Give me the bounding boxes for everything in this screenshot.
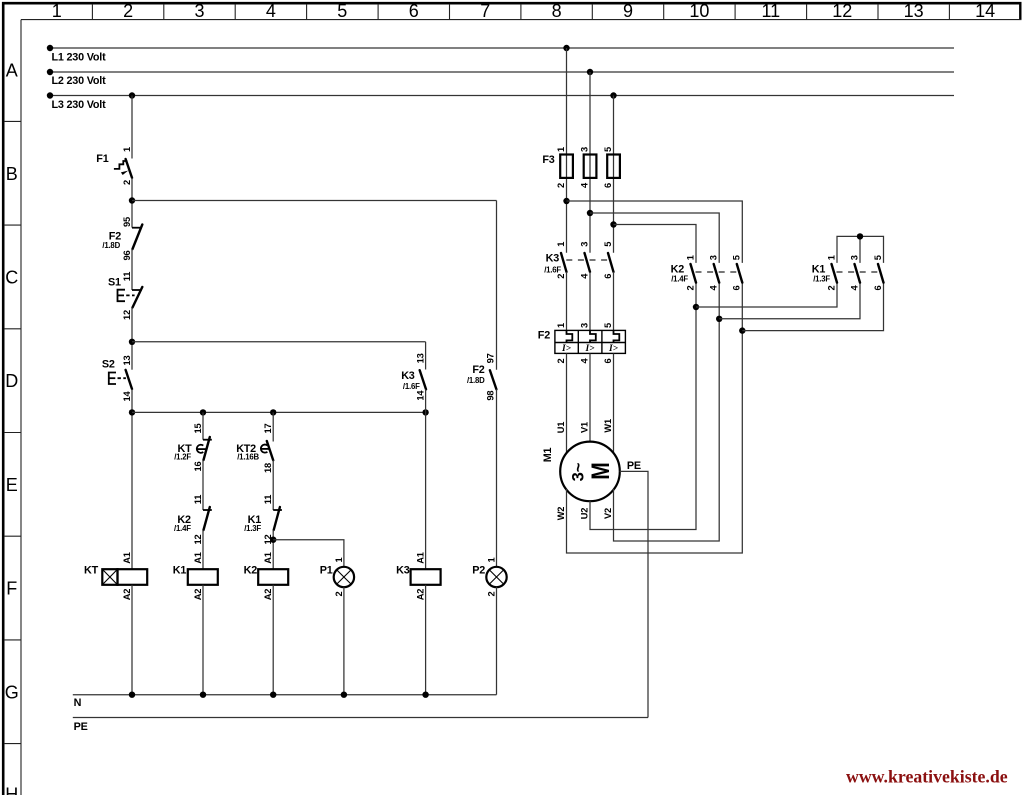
wire node to F2 lamp branch [132, 200, 497, 202]
letter row labels [5, 61, 19, 795]
svg-text:A2: A2 [122, 589, 132, 601]
svg-text:K2: K2 [244, 565, 258, 577]
svg-text:C: C [5, 268, 18, 288]
wire N bus [73, 694, 497, 696]
wire L1 bus [50, 47, 954, 49]
svg-text:97: 97 [486, 353, 496, 363]
svg-text:5: 5 [337, 1, 347, 21]
wire KT2 contact to K1 contact [272, 460, 274, 510]
svg-text:3: 3 [709, 255, 719, 260]
svg-text:P2: P2 [472, 565, 485, 577]
wire L2 bus [50, 71, 954, 73]
svg-text:1: 1 [334, 557, 344, 562]
svg-text:I>: I> [584, 344, 595, 354]
svg-text:I>: I> [608, 344, 619, 354]
svg-text:P1: P1 [320, 565, 333, 577]
svg-text:6: 6 [873, 285, 883, 290]
svg-text:1: 1 [556, 147, 566, 152]
contact F2 95-96 NC [102, 217, 142, 260]
svg-text:5: 5 [873, 255, 883, 260]
svg-text:E: E [6, 475, 18, 495]
svg-text:/1.3F: /1.3F [244, 524, 261, 533]
node K2 pin4 to K1 link [716, 316, 722, 322]
svg-text:D: D [5, 371, 18, 391]
svg-text:5: 5 [603, 147, 613, 152]
switch S2 NO pushbutton [102, 356, 132, 402]
wire branch to lamp P1 [273, 540, 344, 567]
node rung bus left [129, 409, 135, 415]
svg-text:S1: S1 [108, 277, 121, 289]
svg-text:11: 11 [761, 1, 780, 21]
wire F2b branch down [496, 201, 498, 370]
wire K1 star bridge center stub [859, 236, 861, 263]
node K1 star bridge [857, 233, 863, 239]
wire rung bus [132, 411, 426, 413]
svg-text:F2: F2 [472, 364, 484, 376]
svg-text:1: 1 [122, 147, 132, 152]
node KT at N [129, 692, 135, 698]
svg-text:2: 2 [556, 358, 566, 363]
contactor K2 main contacts [671, 255, 743, 290]
svg-text:PE: PE [74, 721, 88, 733]
svg-text:F2: F2 [538, 330, 550, 342]
node L1 start [47, 45, 53, 51]
svg-text:H: H [5, 785, 18, 795]
wire K3 branch down [425, 342, 427, 370]
contact K3 13-14 NO [401, 353, 426, 400]
wire phase1 L1 to K3 [566, 48, 568, 253]
wire motor PE to PE bus [620, 471, 648, 717]
svg-text:9: 9 [623, 1, 633, 21]
svg-text:N: N [74, 697, 82, 709]
wire coil K2 to N [272, 585, 274, 695]
svg-text:11: 11 [263, 495, 273, 504]
wire KT contact to K2 contact [202, 460, 204, 510]
svg-text:L2 230 Volt: L2 230 Volt [52, 75, 107, 87]
svg-text:A2: A2 [263, 589, 273, 601]
wire coil K3 to N [425, 585, 427, 695]
node L2 to F3 tap [587, 69, 593, 75]
svg-text:KT: KT [84, 565, 99, 577]
svg-text:G: G [5, 682, 19, 702]
svg-text:/1.3F: /1.3F [813, 275, 830, 284]
header column numbers [52, 1, 995, 21]
svg-text:/1.16B: /1.16B [237, 453, 259, 462]
border frame outer top line [2, 2, 1022, 5]
CONTROL CIRCUIT [84, 96, 507, 698]
svg-text:/1.6F: /1.6F [544, 266, 561, 275]
svg-text:12: 12 [193, 535, 203, 545]
svg-text:8: 8 [552, 1, 562, 21]
wire L3 down to F1 [131, 96, 133, 159]
wire K2 pin4 to K1 pin4 [719, 283, 860, 319]
svg-text:6: 6 [603, 183, 613, 188]
contactor K1 main contacts [812, 255, 884, 290]
wire F2b to lamp P2 [496, 389, 498, 567]
svg-text:2: 2 [556, 274, 566, 279]
wire bus down to KT contact [202, 412, 204, 439]
wire K1 star bridge [837, 236, 884, 263]
svg-text:2: 2 [826, 285, 836, 290]
svg-text:V2: V2 [603, 508, 613, 519]
wire feed phase3 to K2 pin1 [614, 225, 697, 263]
node bus to KT2 contact [270, 409, 276, 415]
switch S1 NC pushbutton [108, 272, 142, 320]
svg-text:A2: A2 [416, 589, 426, 601]
svg-text:W2: W2 [556, 507, 566, 521]
node L1 to F3 tap [563, 45, 569, 51]
node L3 to F1 tap [129, 92, 135, 98]
svg-text:/1.6F: /1.6F [403, 382, 420, 391]
node L2 start [47, 69, 53, 75]
svg-text:M1: M1 [542, 448, 554, 463]
lamp P1 [320, 557, 354, 596]
svg-text:2: 2 [123, 1, 133, 21]
svg-text:10: 10 [689, 1, 709, 21]
FOOTER [846, 767, 1008, 787]
node bus to KT contact [200, 409, 206, 415]
svg-text:U2: U2 [580, 508, 590, 520]
svg-text:6: 6 [603, 274, 613, 279]
node K2 pin2 to K1 link [693, 304, 699, 310]
svg-text:K3: K3 [401, 370, 415, 382]
svg-text:3: 3 [580, 323, 590, 328]
coil KT [84, 552, 147, 600]
node K3 at N [422, 692, 428, 698]
svg-text:F: F [6, 579, 17, 599]
wire K3 contact to bus [425, 389, 427, 569]
node phase1 feed tap [563, 198, 569, 204]
wire S2 to coil KT [131, 389, 133, 569]
svg-text:/1.2F: /1.2F [174, 453, 191, 462]
svg-text:B: B [6, 164, 18, 184]
svg-text:/1.8D: /1.8D [102, 241, 120, 250]
svg-text:I>: I> [561, 344, 572, 354]
svg-text:PE: PE [627, 460, 641, 472]
svg-text:S2: S2 [102, 359, 115, 371]
wire F1 to node [131, 178, 133, 228]
node P1 at N [341, 692, 347, 698]
svg-text:13: 13 [904, 1, 924, 21]
svg-text:A2: A2 [193, 589, 203, 601]
svg-text:95: 95 [122, 217, 132, 227]
svg-text:15: 15 [193, 424, 203, 434]
node L3 start [47, 92, 53, 98]
wire phase2 L2 to K3 [589, 72, 591, 253]
node S1 out [129, 339, 135, 345]
svg-text:2: 2 [487, 591, 497, 596]
svg-text:W1: W1 [603, 419, 613, 433]
svg-text:16: 16 [193, 462, 203, 472]
svg-text:12: 12 [832, 1, 852, 21]
svg-text:14: 14 [415, 390, 425, 401]
svg-text:2: 2 [685, 285, 695, 290]
breaker F1 [96, 147, 132, 185]
border frame header right edge [1019, 2, 1021, 20]
node phase2 feed tap [587, 210, 593, 216]
wire K2 pin6 to K1 pin6 [742, 283, 883, 331]
contactor K3 main contacts [544, 242, 613, 279]
wire K2 contact to coil K1 [202, 530, 204, 569]
POWER CIRCUIT [538, 48, 884, 718]
wire feed phase2 to K2 pin3 [590, 213, 719, 263]
svg-text:A1: A1 [416, 552, 426, 564]
svg-text:www.kreativekiste.de: www.kreativekiste.de [846, 767, 1008, 787]
fuse F3 [542, 147, 620, 188]
svg-text:3~: 3~ [570, 462, 588, 481]
svg-text:5: 5 [603, 323, 613, 328]
svg-text:K3: K3 [546, 253, 560, 265]
wire F2 to motor U1 [566, 353, 568, 453]
svg-text:U1: U1 [556, 422, 566, 434]
svg-text:L1 230 Volt: L1 230 Volt [52, 52, 107, 64]
svg-text:2: 2 [122, 180, 132, 185]
svg-text:13: 13 [122, 356, 132, 366]
wire lamp P1 to N [343, 587, 345, 695]
svg-text:M: M [587, 462, 615, 480]
svg-text:K3: K3 [396, 565, 410, 577]
svg-text:2: 2 [334, 591, 344, 596]
contact F2 97-98 NO [467, 353, 496, 400]
svg-text:98: 98 [486, 391, 496, 401]
coil K1 [173, 552, 218, 600]
svg-text:5: 5 [732, 255, 742, 260]
wire node to K3 contact branch [132, 341, 426, 343]
svg-text:6: 6 [732, 285, 742, 290]
wire F2 to S1 [131, 249, 133, 290]
svg-text:1: 1 [556, 242, 566, 247]
svg-text:F1: F1 [96, 153, 108, 165]
wire K3 to F2 phase2 [589, 272, 591, 331]
svg-text:96: 96 [122, 251, 132, 261]
svg-text:4: 4 [266, 1, 276, 21]
wire motor U2 to K2 pin2 column [590, 283, 696, 530]
border frame header bottom line [21, 19, 1022, 21]
wire lamp P2 to N corner [496, 587, 498, 695]
svg-text:5: 5 [603, 242, 613, 247]
letter row dividers [4, 121, 21, 743]
contact KT2 17-18 NO delayed [236, 424, 273, 473]
wire coil K1 to N [202, 585, 204, 695]
svg-text:V1: V1 [580, 422, 590, 433]
wire coil KT to N [131, 585, 133, 695]
wire feed phase1 to K2 pin5 [567, 201, 743, 263]
wire F2 to motor W1 [613, 353, 615, 453]
wire bus down to KT2 contact [272, 412, 274, 441]
node K2 pin6 to K1 link [739, 327, 745, 333]
node bus to K3 branch [422, 409, 428, 415]
svg-text:18: 18 [263, 463, 273, 473]
svg-text:L3 230 Volt: L3 230 Volt [52, 99, 107, 111]
svg-text:6: 6 [409, 1, 419, 21]
wire S1 to S2 [131, 308, 133, 370]
coil K3 [396, 552, 441, 600]
svg-text:K1: K1 [173, 565, 187, 577]
contact KT 15-16 NC delayed [174, 424, 212, 472]
wire K3 to F2 phase1 [566, 272, 568, 331]
svg-text:1: 1 [52, 1, 62, 21]
svg-text:3: 3 [194, 1, 204, 21]
border frame outer left line [2, 2, 5, 795]
svg-text:2: 2 [556, 183, 566, 188]
contact K2 11-12 NC [174, 495, 212, 545]
svg-text:14: 14 [122, 391, 132, 402]
node K1 contact to P1 branch [270, 537, 276, 543]
svg-text:17: 17 [263, 424, 273, 434]
svg-text:/1.4F: /1.4F [671, 275, 688, 284]
node K1 at N [200, 692, 206, 698]
svg-text:12: 12 [122, 310, 132, 320]
svg-text:11: 11 [193, 495, 203, 504]
contact K1 11-12 NC [244, 495, 282, 545]
wire L3 bus [50, 95, 954, 97]
header column dividers [92, 4, 949, 20]
wire PE bus [73, 717, 648, 719]
wire K3 to F2 phase3 [613, 272, 615, 331]
lamp P2 [472, 557, 507, 596]
svg-text:1: 1 [685, 255, 695, 260]
wire motor V2 to K2 pin4 column [614, 283, 720, 541]
POWER BUSES [47, 45, 954, 733]
svg-text:A1: A1 [263, 552, 273, 564]
svg-text:A1: A1 [122, 552, 132, 564]
motor M1 [542, 419, 620, 520]
svg-text:1: 1 [826, 255, 836, 260]
svg-text:A: A [6, 61, 18, 81]
coil K2 [244, 552, 289, 600]
border frame letter column divider [20, 20, 22, 795]
svg-text:11: 11 [122, 272, 132, 281]
wire F2 to motor V1 [589, 353, 591, 441]
svg-text:3: 3 [580, 242, 590, 247]
wire phase3 L3 to K3 [613, 96, 615, 253]
node F1 out [129, 197, 135, 203]
svg-text:A1: A1 [193, 552, 203, 564]
overload relay F2 [538, 323, 626, 364]
wire motor W2 to K2 pin6 column [567, 283, 743, 553]
svg-text:F3: F3 [542, 154, 554, 166]
svg-text:/1.4F: /1.4F [174, 524, 191, 533]
svg-text:1: 1 [487, 557, 497, 562]
svg-text:14: 14 [975, 1, 995, 21]
svg-text:6: 6 [603, 358, 613, 363]
svg-text:3: 3 [580, 147, 590, 152]
svg-text:1: 1 [556, 323, 566, 328]
svg-text:/1.8D: /1.8D [467, 376, 485, 385]
svg-text:7: 7 [480, 1, 490, 21]
wire K2 pin2 to K1 pin2 [696, 283, 837, 307]
svg-text:13: 13 [415, 353, 425, 363]
node K2 at N [270, 692, 276, 698]
node L3 to F3 tap [610, 92, 616, 98]
node phase3 feed tap [610, 221, 616, 227]
wire K1 contact to coil K2 [272, 530, 274, 569]
svg-text:3: 3 [849, 255, 859, 260]
